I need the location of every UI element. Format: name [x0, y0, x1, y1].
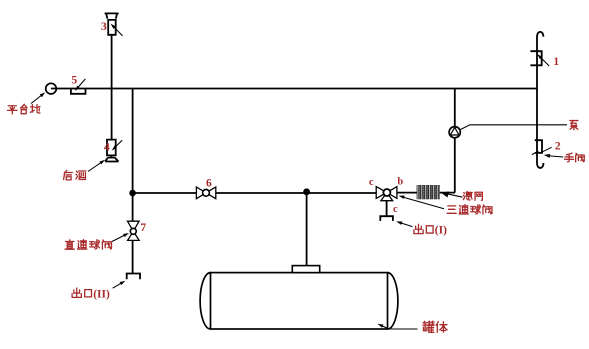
- wire: main horizontal header pipe y=88.5: [51, 88, 537, 90]
- label beng (pump): [570, 121, 578, 130]
- leader line for 2: [542, 147, 552, 152]
- label hou-sa (after-spray): [64, 170, 86, 180]
- svg-text:2: 2: [555, 140, 561, 152]
- svg-text:c: c: [393, 204, 398, 215]
- leader arrow for chu-kou-(I): [396, 221, 412, 226]
- svg-text:4: 4: [104, 140, 110, 154]
- label 2: [555, 140, 561, 152]
- svg-text:(I): (I): [435, 225, 447, 237]
- label guan-ti (tank body): [423, 321, 447, 332]
- label chu-kou-(II) outlet 2: [72, 288, 110, 300]
- leader arrow for shou-fa: [544, 154, 563, 158]
- leader arrow for 4: [112, 140, 122, 150]
- tank (guan-ti) body: [200, 273, 398, 329]
- leader arrow for hou-sa label: [88, 160, 105, 172]
- svg-text:(II): (II): [93, 288, 110, 300]
- filter (lv-wang) mesh box: [417, 185, 440, 199]
- svg-text:7: 7: [140, 222, 146, 234]
- label 1: [553, 56, 559, 68]
- leader line for beng label: [460, 125, 567, 130]
- wire: pipe from three-way valve through filter to pump riser: [397, 192, 455, 194]
- wire: right header pipe with hooked ends x=537: [537, 32, 544, 168]
- node: junction dot left (132.6,193): [129, 190, 136, 197]
- ground circle (platform earth): [46, 83, 57, 94]
- spray nozzle 4 (hou-sa): [105, 140, 118, 162]
- port label b (right): [397, 177, 403, 188]
- svg-text:b: b: [397, 177, 403, 188]
- leader arrow for san-tong-qiu-fa: [399, 196, 444, 209]
- port label c (left): [369, 177, 374, 188]
- label 4: [104, 140, 110, 154]
- wire: lower horizontal pipe y=193 (branch to three-way valve): [133, 192, 377, 194]
- wire: stem to outlet I: [386, 201, 388, 217]
- label 7: [140, 222, 146, 234]
- port label c (bottom): [393, 204, 398, 215]
- node: junction dot tank riser (306.6,191.5): [303, 188, 310, 195]
- label 6: [206, 177, 212, 189]
- leader for guan-ti label: [378, 324, 418, 329]
- wire: pump riser pipe x=455: [454, 89, 456, 193]
- label chu-kou-(I) outlet 1: [414, 224, 447, 236]
- outlet I stub symbol: [380, 216, 393, 221]
- flame arrester 5 (bracket under header): [71, 89, 86, 94]
- svg-text:c: c: [369, 177, 374, 188]
- valve 6 (ball valve on branch line): [196, 187, 215, 199]
- label ping-tai-di (platform ground): [8, 104, 40, 114]
- label 5: [71, 74, 77, 86]
- label san-tong-qiu-fa (three-way ball valve): [447, 205, 492, 214]
- wire: left branch drop pipe x=132.6 (header down to outlet II): [132, 89, 134, 274]
- pump (beng) circle with triangle: [449, 127, 460, 138]
- svg-text:5: 5: [71, 74, 77, 86]
- outlet II stub symbol: [127, 274, 140, 280]
- relief device 1 (bracket on right header): [530, 51, 541, 65]
- three-way ball valve (san-tong-qiu-fa): [376, 187, 397, 201]
- svg-text:3: 3: [101, 19, 107, 33]
- hand valve 2 (bracket on right header): [535, 140, 542, 153]
- vent funnel 3 (top): [105, 13, 119, 34]
- svg-text:6: 6: [206, 177, 212, 189]
- wire: tank riser pipe x=306.6: [306, 193, 308, 266]
- valve 7 (straight ball valve, vertical): [128, 221, 140, 240]
- tank nozzle flange: [292, 266, 319, 273]
- svg-text:1: 1: [553, 56, 559, 68]
- leader arrow for zhi-tong-qiu-fa: [112, 233, 129, 242]
- leader arrow for outlet II label: [113, 281, 126, 288]
- leader arrow for 5: [75, 79, 86, 91]
- wire: vent riser pipe x=111.6 (from vent 3 down to nozzle 4): [111, 35, 113, 140]
- label lv-wang (filter screen): [463, 192, 482, 201]
- leader arrow for ping-tai-di: [31, 92, 45, 103]
- label 3: [101, 19, 107, 33]
- leader arrow for lv-wang (solid): [441, 191, 462, 197]
- leader arrow for 1: [537, 54, 549, 66]
- leader arrow for 3: [111, 24, 123, 36]
- tick at hand valve: [532, 151, 539, 154]
- label shou-fa (hand valve): [565, 153, 585, 162]
- label zhi-tong-qiu-fa (straight ball valve): [65, 240, 111, 250]
